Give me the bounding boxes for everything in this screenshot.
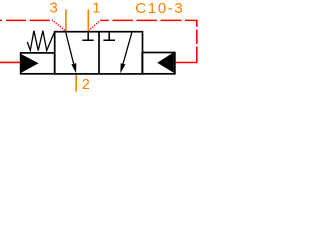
wire red solid to left pilot box xyxy=(0,61,21,63)
pilot line dashed red horizontal right segment xyxy=(100,19,196,21)
right position flow arrow 1-2 xyxy=(123,33,132,64)
port 2 stub orange xyxy=(75,75,77,92)
svg-text:3: 3 xyxy=(50,1,58,17)
return spring xyxy=(27,31,54,51)
svg-text:1: 1 xyxy=(92,0,100,16)
pilot line dashed red horizontal left segment xyxy=(0,19,50,21)
port 3 stub orange xyxy=(65,10,67,32)
pilot line diagonal to port 3 xyxy=(52,20,66,32)
left position blocked port T (port 1) xyxy=(82,33,93,41)
valve body outline xyxy=(55,32,143,74)
pilot line dashed red vertical right xyxy=(196,20,198,63)
svg-text:C10-3: C10-3 xyxy=(135,0,184,17)
pilot line diagonal from port 1 xyxy=(88,20,100,31)
right pilot box xyxy=(142,53,175,74)
right pilot triangle xyxy=(157,52,174,73)
left position flow arrow 3-2 xyxy=(66,33,74,66)
right position blocked port T (port 3) xyxy=(103,33,115,41)
left pilot box xyxy=(21,53,55,74)
valve position divider xyxy=(98,32,100,74)
svg-text:2: 2 xyxy=(82,77,90,93)
left pilot triangle xyxy=(21,54,38,72)
wire red solid to right pilot box xyxy=(175,62,198,64)
port 1 stub orange xyxy=(87,10,89,31)
